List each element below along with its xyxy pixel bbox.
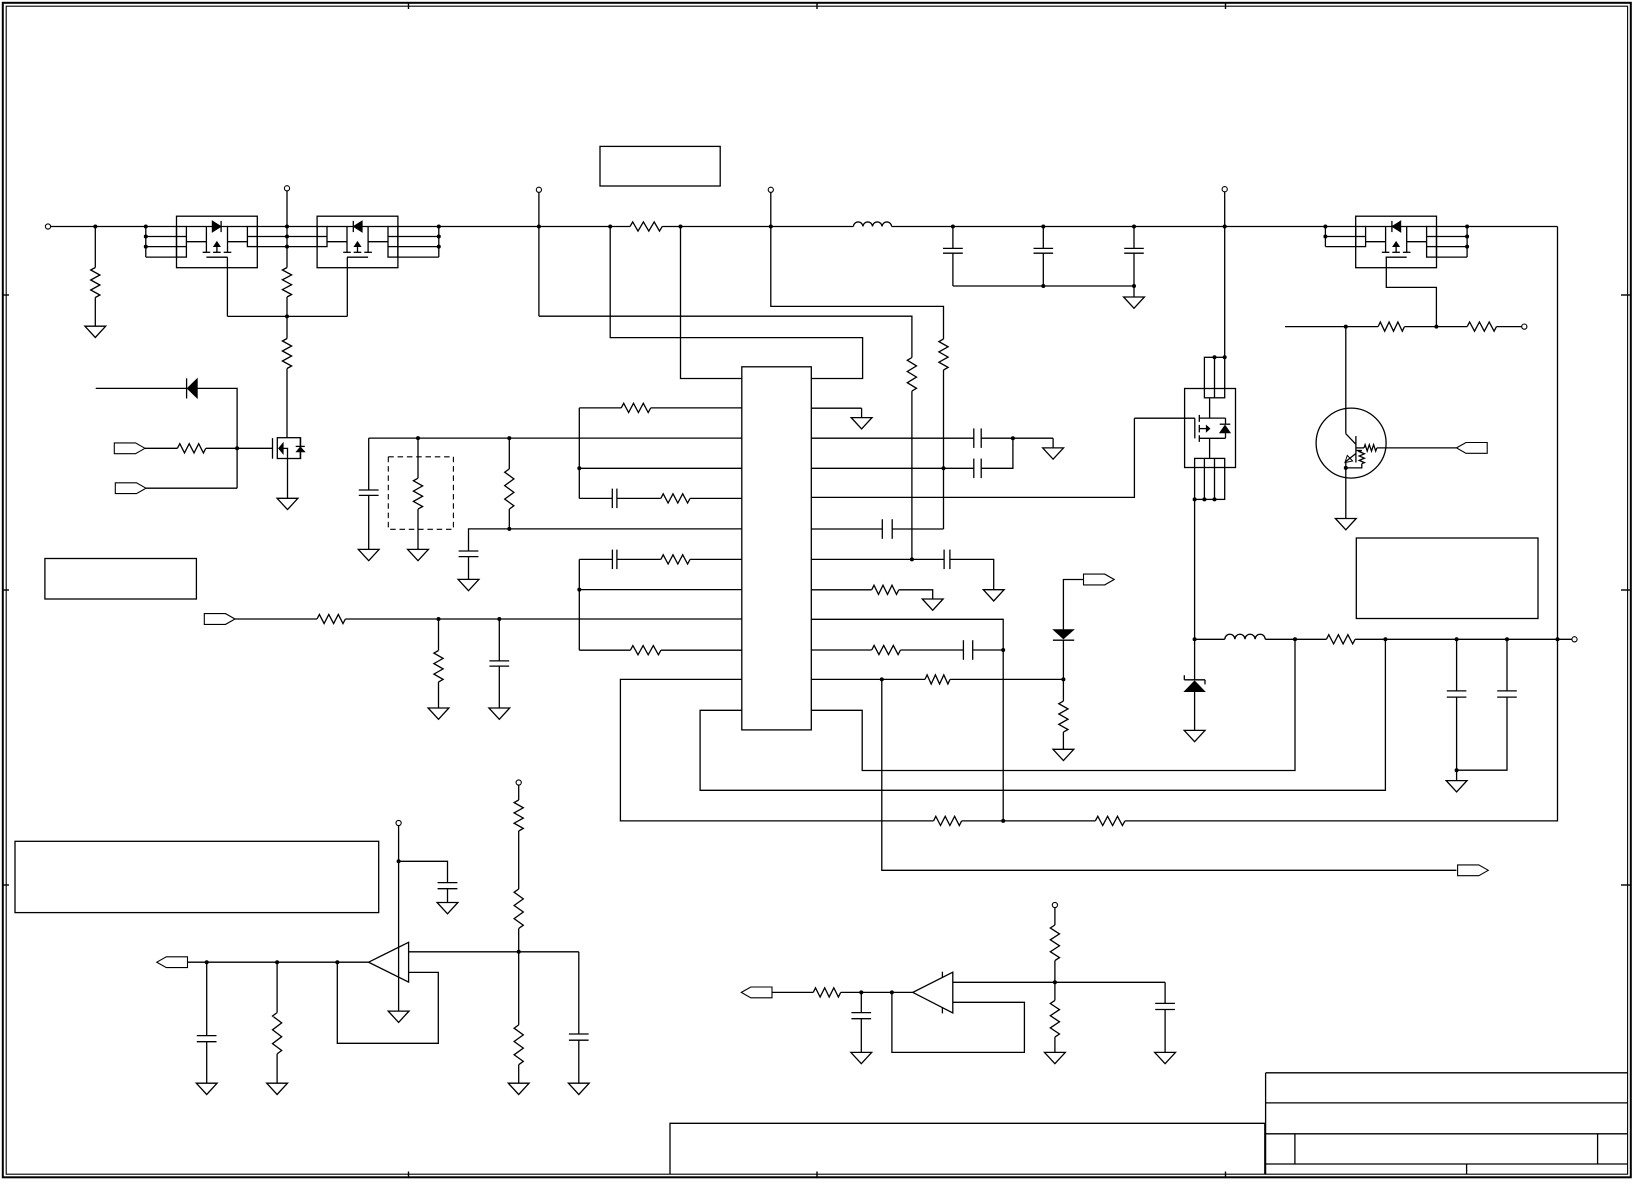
resistor R31 [1054,982,1056,1000]
terminal T8 [396,820,401,825]
wire T4 down [770,192,772,226]
diode D2 zener [1194,639,1196,680]
capacitor C6 series [973,428,975,448]
node bus B [679,225,683,229]
wire U1 pin L11 route [620,679,933,821]
node fan3r dots [1465,225,1469,229]
transistor Q4 N-MOSFET module [1185,389,1236,468]
wire U3 plus input [953,981,1165,983]
ground below R31 [1045,1052,1066,1063]
wire U1 pin R4 gate line [811,418,1134,497]
wire U1 pin L12 route [700,639,1385,790]
terminal T6 [1522,324,1527,329]
terminal T9 [516,780,521,785]
resistor R18 [617,558,661,560]
ground below C12 [358,549,379,560]
ground at U1 pin R1 [851,418,872,429]
resistor R21 [438,619,440,651]
node right rail join [1556,637,1560,641]
node left rail B dot [577,588,581,592]
node comp dot [507,527,511,531]
node gate join [285,314,289,318]
capacitor C12 [368,438,370,490]
node C4 bottom [1455,768,1459,772]
wire U2 feedback [337,962,438,1043]
wire bus segment [439,226,610,228]
wire Q4 gate entry [1134,417,1194,419]
ground below C16 [437,903,458,914]
wire U1 pin R2 [811,437,974,439]
node out2 dots [859,990,863,994]
resistor R4 bus series [610,226,630,228]
resistor R14 [579,407,621,409]
node divider2 tap [1053,980,1057,984]
capacitor C7 series [973,459,975,479]
node C3 bottom [1132,284,1136,288]
node SW [1193,637,1197,641]
resistor R16 [417,438,419,478]
wire bus segment 2 [681,226,771,228]
resistor R27 [514,889,523,929]
wire U2 out line [187,961,368,963]
node bus A [608,225,612,229]
ground below C17 [196,1083,217,1094]
pin fan of Q2 module right [398,226,438,228]
U3 power stubs [941,972,943,978]
node L2 out [1293,637,1297,641]
wire pin L4 cap [579,497,612,499]
node diode join [1061,677,1065,681]
wire Q6 source gnd [287,459,289,499]
capacitor C13 [459,550,479,552]
node fan dots [144,225,148,229]
node fb dots [416,436,420,440]
resistor R17 [508,438,510,469]
ground below R1 [85,326,106,337]
wire branch cap [399,861,448,882]
wire gate to Q6 [237,447,272,449]
wire U1 pin R12 route [811,639,1295,770]
pin fan of Q3 module left [1324,227,1326,247]
terminal T7 output [1572,637,1577,642]
wire bus to right rail [1467,226,1557,228]
wire right rail lower [1125,639,1558,821]
wire U2 plus input [409,951,579,953]
node out1 dots [205,960,209,964]
wire module1-module2 three lines [257,226,317,228]
snubber dashed box [388,457,453,530]
terminal T3 [536,187,541,192]
node left rail dot [577,466,581,470]
wire C2-C3 bottom [1043,285,1134,287]
node Q4 bottom pins [1193,497,1197,501]
capacitor C5 [1506,639,1508,691]
node bus C3 top [1132,225,1136,229]
wire U1 pin R1 gnd stub [811,407,861,409]
net flag CTRL (left-pointing tag) [1457,443,1488,454]
node mid dots [285,225,289,229]
notes box [670,1123,1265,1174]
resistor R26 [518,785,520,800]
wire feedback line [369,437,742,439]
inductor L1 [771,226,854,228]
ground below U2 [388,1011,409,1022]
resistor R2 [282,268,291,298]
node en dots [437,617,441,621]
resistor R10 [811,589,871,591]
inductor L2 [1195,638,1225,640]
capacitor C4 [1456,639,1458,691]
wire pin L6 cap [579,558,612,560]
ground below C20 [1155,1052,1176,1063]
capacitor C10 series [962,640,964,660]
node T8 branch [397,859,401,863]
resistor R7 [1346,326,1378,328]
transistor Q6 small N-MOSFET [272,438,274,459]
resistor R29 [772,991,813,993]
resistor R15 [617,497,661,499]
input terminal J1 [45,224,50,229]
net flag OUT2 (left tag) [741,987,772,998]
transistor Q1 dual P-MOSFET module [177,216,258,268]
net flag CS (right tag) [1458,865,1489,876]
wire out segment [1385,638,1456,640]
node fan3 dots [1323,225,1327,229]
wire U1 left rail A [578,408,580,499]
node comp join [1001,648,1005,652]
net flag DRV (right tag) [114,443,145,454]
wire pin L7 [579,589,742,591]
wire C7 up [981,438,1013,468]
capacitor C18 [578,952,580,1034]
capacitor C8 series [881,519,883,539]
ground below C3 [1124,297,1145,308]
wire U1 pin R9 [811,619,1003,650]
ground at C6 [1043,448,1064,459]
wire U1 pin R11 [811,678,882,680]
ground below Q5 [1335,519,1356,530]
node bus C1 top [951,225,955,229]
node cs join [880,677,884,681]
resistor R13 [1059,701,1068,732]
resistor R19 [579,649,630,651]
wire Q5 collector [1345,327,1347,434]
wire T3 branch [538,192,540,316]
wire comp line [469,529,742,551]
label box LB3 [45,559,197,600]
node bus/R1 junction [93,225,97,229]
terminal T10 [1052,902,1057,907]
pin fan of Q1 module left [145,227,147,258]
wire U1 left rail B [578,559,580,650]
ground below R21 [428,708,449,719]
ground below C19 [851,1052,872,1063]
node divider tap [517,950,521,954]
wire cs route [882,679,1457,870]
border fold tick marks [408,2,410,9]
capacitor C1 [952,227,954,249]
pin fan of Q3 module right [1437,226,1468,228]
resistor R5 [907,358,916,392]
transistor Q5 digital NPN [1316,408,1386,478]
resistor R11 [811,649,871,651]
node C4 top [1455,637,1459,641]
capacitor C17 [206,962,208,1035]
label box LB2 [1356,538,1538,619]
wire U3 feedback [892,992,1025,1052]
resistor R3 [282,339,291,369]
resistor R9 [1295,638,1326,640]
transistor Q2 dual P-MOSFET module [317,216,398,268]
terminal T2 [284,186,289,191]
wire U1 pin R5 [811,528,882,530]
wire out segment 2 [1457,638,1507,640]
node bus C2 top [1041,225,1045,229]
wire C6 out [981,437,1053,439]
transistor Q3 dual P-MOSFET module [1356,216,1437,268]
net flag OUT1 (left tag) [157,957,188,968]
wire gate bus [226,257,228,316]
capacitor C15 [498,619,500,661]
wire T4 branch to cap line [771,227,944,340]
capacitor C19 [860,992,862,1012]
ground below C15 [489,708,510,719]
node bus T4 [769,225,773,229]
terminal T4 [768,187,773,192]
net flag VIN2 (right tag) [115,483,146,494]
wire right rail down [1557,227,1559,640]
node R3 vert join [942,466,946,470]
capacitor C2 [1042,227,1044,249]
node comp bottom [1001,819,1005,823]
wire out segment 3 [1507,638,1575,640]
node fan2 dots [437,225,441,229]
wire U1 pin R6 [811,558,944,560]
op-amp U2 [369,942,409,982]
wire comp down [1002,650,1004,821]
ground below C18 [568,1083,589,1094]
resistor R24 [145,447,177,449]
node gate drive dot [235,446,239,450]
ground below Q6 [277,498,298,509]
wire C9 out [950,559,994,589]
wire bus A to IC right pin 1 [610,227,862,379]
diode D1 [96,387,187,389]
U1 controller IC body [742,367,812,730]
node C5 top [1505,637,1509,641]
resistor R20 [235,618,317,620]
ground at R10 [922,599,943,610]
ground below R13 [1053,749,1074,760]
resistor R8 [1436,326,1467,328]
diode D3 [1063,580,1083,630]
terminal T5 [1222,187,1227,192]
resistor R22 [934,816,962,825]
label box LB4 [15,841,379,912]
resistor R25 [276,962,278,1012]
title block [1265,1073,1267,1174]
wire to gnd [1052,438,1054,448]
wire Q3 gate [1386,257,1436,326]
node bus T3 [537,225,541,229]
resistor R6 [939,339,948,370]
ground below C13 [458,579,479,590]
wire T8 down [398,826,400,1012]
wire Q5 base out [1377,447,1457,449]
wire T5 down to Q4 [1224,192,1226,357]
wire sense stub [1285,326,1346,328]
wire C8 out [892,528,943,530]
resistor R28 [518,952,520,1025]
capacitor C14 series [611,550,613,570]
node sense A [1344,325,1348,329]
node Q4 top pins [1213,355,1217,359]
net flag EN (right tag) [204,614,235,625]
ground at C9 [983,590,1004,601]
resistor R12 [882,678,925,680]
wire T2 down [286,191,288,268]
node C2 bottom [1041,284,1045,288]
wire pin L3 [579,467,742,469]
wire C10 out [973,649,1004,651]
op-amp U3 [913,972,953,1013]
resistor R30 [1054,908,1056,925]
wire tag to corner [146,487,237,489]
capacitor C9 series [943,550,945,570]
capacitor C16 [438,882,458,884]
capacitor C3 [1133,227,1135,249]
capacitor C11 series [611,489,613,509]
resistor R23 [1095,816,1125,825]
wire Q4 source down [1194,499,1196,640]
wire bus to fan [95,226,146,228]
wire C1 bottom [953,285,1043,287]
net flag ISNS (right tag) [1084,574,1115,585]
node pinR2 C7 join [1011,436,1015,440]
ground below R28 [508,1083,529,1094]
node bus T5 [1223,225,1227,229]
wire U1 pin R3 [811,467,974,469]
wire bus B to IC left pin 1 [681,227,742,379]
node FB1 [1383,637,1387,641]
ground below D2 [1184,730,1205,741]
wire bus segment 3 [953,226,1225,228]
node R6 join [910,557,914,561]
ground below R25 [267,1083,288,1094]
ground below R16 [408,549,429,560]
capacitor C20 [1164,982,1166,1003]
ground below C4 [1446,781,1467,792]
resistor R1 [94,227,96,268]
node sense B [1434,325,1438,329]
label box LB1 [600,146,720,186]
